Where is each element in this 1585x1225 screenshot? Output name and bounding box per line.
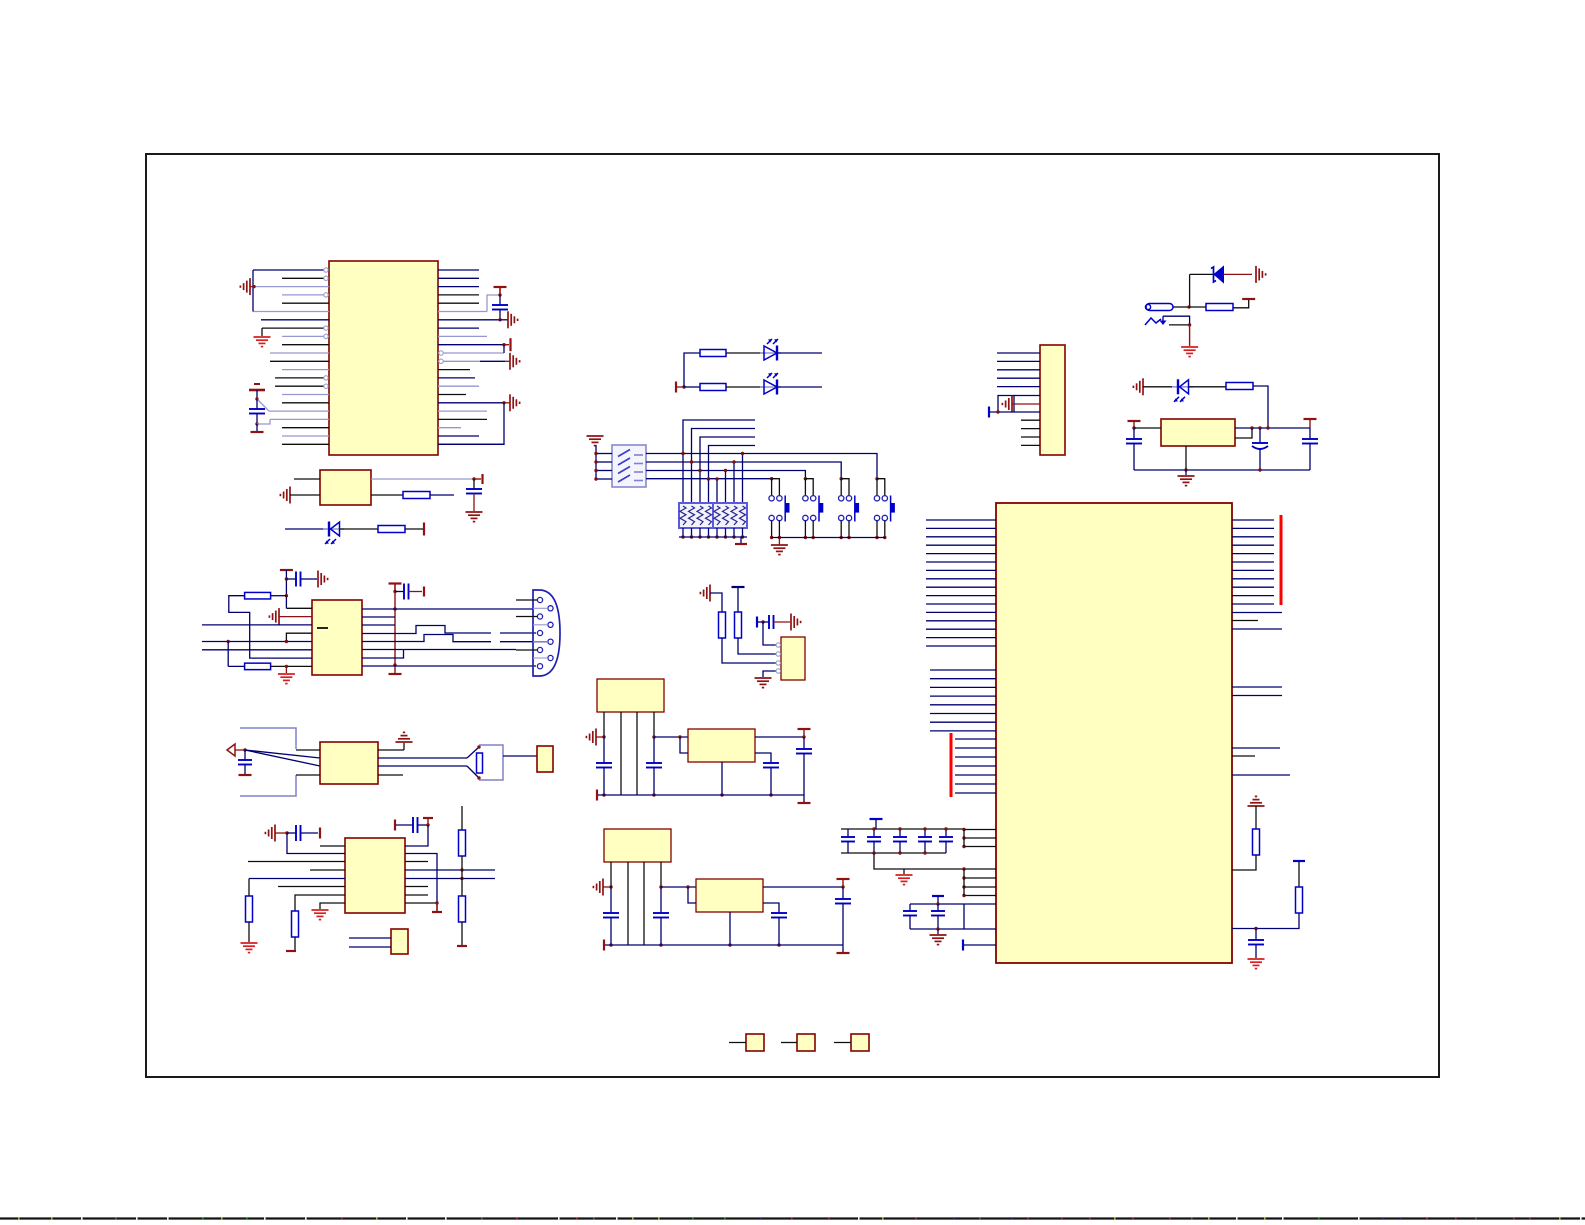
IC U2 xyxy=(312,600,362,675)
wire xyxy=(729,1042,746,1044)
arrow marker xyxy=(227,744,235,756)
wire stub xyxy=(516,599,537,601)
U7 right pin wire xyxy=(1232,569,1274,571)
wire xyxy=(1255,806,1257,829)
wire xyxy=(362,665,536,667)
junction xyxy=(707,477,710,480)
power bar P24 xyxy=(870,818,883,820)
wire stub xyxy=(691,528,693,537)
wire xyxy=(1189,274,1191,307)
junction xyxy=(898,827,901,830)
junction xyxy=(393,590,396,593)
U7 left pin wire xyxy=(955,774,996,776)
wire net SW2 xyxy=(646,462,841,479)
U7 left pin wire xyxy=(926,569,996,571)
push button SW2 xyxy=(804,477,807,480)
capacitor C10 (polar) xyxy=(1259,428,1261,443)
wire xyxy=(294,478,320,480)
wire xyxy=(636,712,638,795)
wire xyxy=(202,649,312,651)
power bar P11 xyxy=(239,774,252,776)
component P3 xyxy=(851,1034,869,1051)
wire xyxy=(757,621,763,623)
wire xyxy=(1253,386,1268,428)
wire xyxy=(1235,427,1310,429)
RN element xyxy=(706,506,712,525)
wire xyxy=(1235,428,1252,438)
wire xyxy=(271,665,312,667)
power bar P28 xyxy=(732,586,745,588)
wire xyxy=(676,386,684,388)
wire xyxy=(603,712,605,737)
U7 left pin wire xyxy=(926,645,996,647)
wire xyxy=(721,762,723,795)
U7 left pin wire xyxy=(964,895,996,897)
junction xyxy=(498,318,501,321)
U7 left pin wire xyxy=(930,713,996,715)
wire stub xyxy=(876,521,878,538)
ground G20 (rotated) xyxy=(1142,378,1144,395)
wire xyxy=(620,712,622,795)
junction xyxy=(804,536,807,539)
U1 left pin wire xyxy=(270,360,329,362)
junction xyxy=(690,460,693,463)
wire xyxy=(228,665,244,667)
wire bus xyxy=(963,869,965,896)
U1 right pin wire xyxy=(438,410,487,412)
junction xyxy=(1132,426,1135,429)
junction xyxy=(659,943,662,946)
resistor R17 xyxy=(735,612,742,638)
junction xyxy=(698,469,701,472)
U1 left pin wire xyxy=(254,286,329,288)
U7 left pin wire xyxy=(926,561,996,563)
U7 left pin wire xyxy=(926,637,996,639)
LED D2 xyxy=(760,352,781,354)
wire xyxy=(1224,273,1253,275)
ground G24 (inverted) xyxy=(1248,805,1265,807)
U1 left pin wire xyxy=(282,394,329,396)
U1 left pin wire xyxy=(253,269,329,271)
U7 left pin wire xyxy=(926,595,996,597)
wire stub xyxy=(812,521,814,538)
junction xyxy=(285,577,288,580)
wire xyxy=(1189,306,1206,308)
junction xyxy=(769,793,772,796)
U1 right pin wire xyxy=(438,269,479,271)
S1 switch lever xyxy=(634,454,643,456)
power bar P7 xyxy=(280,569,293,571)
capacitor (bank) xyxy=(945,829,947,837)
U7 left pin wire xyxy=(930,695,996,697)
wire xyxy=(320,903,345,909)
ground G21 xyxy=(1185,470,1187,475)
wire stub xyxy=(682,528,684,537)
U7 right pin wire xyxy=(1232,695,1282,697)
ground G25 xyxy=(1248,958,1265,960)
U7 right pin wire xyxy=(1232,612,1282,614)
J1 pin xyxy=(537,614,542,619)
ground G9 (rotated) xyxy=(278,608,280,625)
S1 switch lever xyxy=(634,463,643,465)
U7 left pin wire xyxy=(926,628,996,630)
ground (rotated) xyxy=(595,729,597,746)
wire net SW1 xyxy=(646,454,877,479)
wire rail xyxy=(1134,469,1310,471)
wire xyxy=(340,528,378,530)
capacitor xyxy=(610,887,612,913)
wire stub xyxy=(804,521,806,538)
U1 left pin wire xyxy=(275,385,329,387)
junction xyxy=(435,901,438,904)
junction xyxy=(285,665,288,668)
ground G14 xyxy=(312,909,329,911)
capacitor xyxy=(771,912,787,914)
U7 left pin wire xyxy=(926,519,996,521)
wire rail xyxy=(604,944,843,946)
wire xyxy=(295,895,345,911)
wire xyxy=(688,887,696,903)
U7 left pin wire xyxy=(964,903,996,905)
U7 right pin wire xyxy=(1232,595,1274,597)
wire xyxy=(362,624,395,626)
regulator X2R xyxy=(688,729,755,762)
wire xyxy=(362,650,404,659)
ground G27 (rotated) xyxy=(790,614,792,631)
wire diagonal xyxy=(245,750,320,758)
U1 right pin wire xyxy=(438,435,479,437)
junction xyxy=(594,460,597,463)
U1 right pin wire xyxy=(438,352,504,354)
wire xyxy=(362,616,395,618)
wire xyxy=(1169,324,1190,326)
wire xyxy=(874,853,904,869)
wire riser xyxy=(725,471,727,504)
junction xyxy=(802,735,805,738)
junction xyxy=(594,469,597,472)
resistor R10 xyxy=(700,350,726,357)
junction xyxy=(944,827,947,830)
DIP switch S1 xyxy=(612,445,646,487)
wire net to ground xyxy=(438,403,504,445)
junction xyxy=(227,640,230,643)
IC U8 xyxy=(781,637,805,680)
push button SW1 xyxy=(770,477,773,480)
capacitor C14 xyxy=(1255,929,1257,941)
J4 pin wire xyxy=(1012,403,1040,405)
junction xyxy=(243,748,246,751)
ground G7 xyxy=(466,511,483,513)
U7 left pin wire xyxy=(926,527,996,529)
wire xyxy=(249,878,345,880)
junction xyxy=(875,536,878,539)
capacitor xyxy=(763,762,779,764)
junction xyxy=(962,894,965,897)
power bar xyxy=(798,802,811,804)
wire xyxy=(362,649,516,651)
junction xyxy=(840,536,843,539)
junction xyxy=(923,827,926,830)
junction xyxy=(707,535,710,538)
wire xyxy=(235,749,245,751)
U7 right pin wire xyxy=(1232,544,1274,546)
junction xyxy=(609,885,612,888)
capacitor C9 xyxy=(1133,428,1135,439)
wire rail xyxy=(841,852,946,854)
ground G19 (rotated) xyxy=(1011,396,1013,413)
J4 pin wire xyxy=(997,369,1040,371)
wire U1 left net vertical xyxy=(252,270,254,312)
wire xyxy=(680,737,688,753)
fuse F1 xyxy=(1146,304,1173,311)
diode D4 xyxy=(1190,273,1213,275)
power bar xyxy=(837,952,850,954)
wire xyxy=(487,295,500,312)
U1 left pin wire xyxy=(269,410,329,412)
J4 pin wire xyxy=(1021,419,1040,421)
junction xyxy=(602,793,605,796)
junction xyxy=(898,851,901,854)
power bar P10 xyxy=(389,673,402,675)
J1 pin xyxy=(537,647,542,652)
wire stub xyxy=(725,528,727,537)
wire xyxy=(349,946,391,948)
ground G18 xyxy=(1181,346,1198,348)
component P2 xyxy=(797,1034,815,1051)
resistor R15 xyxy=(1296,887,1303,913)
U7 left pin wire xyxy=(964,877,996,879)
U1 left pin wire xyxy=(282,344,329,346)
wire xyxy=(461,922,463,945)
junction xyxy=(841,885,844,888)
wire xyxy=(248,861,345,863)
power bar P27 xyxy=(1293,860,1305,862)
junction xyxy=(962,867,965,870)
power bar P19 xyxy=(740,537,742,543)
U2 pin1 marker xyxy=(317,627,328,629)
resistor R11 xyxy=(700,384,726,391)
U7 left pin wire xyxy=(955,738,996,740)
resistor network RN2 xyxy=(713,503,747,528)
wire xyxy=(763,622,778,645)
wire xyxy=(371,494,403,496)
wire xyxy=(1232,913,1299,929)
wire xyxy=(755,736,804,738)
U1 left pin wire xyxy=(282,294,329,296)
IC U4 xyxy=(345,838,405,913)
junction xyxy=(393,607,396,610)
U7 left pin wire xyxy=(955,747,996,749)
wire rail xyxy=(679,536,747,538)
wire xyxy=(726,386,764,388)
junction xyxy=(761,620,764,623)
wire xyxy=(202,624,312,626)
power bar xyxy=(596,790,598,801)
wire stub xyxy=(742,528,744,537)
wire xyxy=(1232,855,1256,870)
U7 left pin wire xyxy=(964,944,996,946)
U7 right pin wire xyxy=(1232,620,1258,622)
capacitor C1 xyxy=(256,399,258,409)
IC U3 xyxy=(320,742,378,784)
ground (rotated) xyxy=(602,879,604,896)
RN element xyxy=(740,506,746,525)
LED D1 xyxy=(323,528,344,530)
wire net SW4 xyxy=(646,478,772,480)
junction xyxy=(770,536,773,539)
wire xyxy=(430,494,454,496)
power bar P20 xyxy=(1242,298,1255,300)
wire stub xyxy=(405,861,428,863)
J4 pin wire xyxy=(997,386,1040,388)
junction xyxy=(724,535,727,538)
ground G2 xyxy=(261,328,263,336)
U8 pin bubble xyxy=(776,652,780,656)
U7 right pin wire xyxy=(1232,603,1274,605)
U7 left pin wire xyxy=(964,829,996,831)
U1 right pin wire xyxy=(438,311,487,313)
U7 left pin wire xyxy=(926,553,996,555)
wire xyxy=(286,607,312,609)
power bar P13 xyxy=(286,950,296,952)
U1 right pin wire xyxy=(438,369,470,371)
ground G17 (rotated) xyxy=(1255,266,1257,283)
wire stub xyxy=(778,521,780,538)
U1 left pin wire xyxy=(282,435,329,437)
power bar P18 xyxy=(675,382,677,393)
resistor R14 xyxy=(1253,829,1260,855)
wire stub xyxy=(596,470,612,472)
wire stub xyxy=(596,453,612,455)
power bar xyxy=(837,878,850,880)
U7 left pin wire xyxy=(964,928,996,930)
U1 right pin wire xyxy=(438,302,479,304)
wire xyxy=(405,825,428,846)
IC U7 xyxy=(996,503,1232,963)
S1 switch lever xyxy=(634,480,643,482)
U7 left pin wire xyxy=(930,730,996,732)
LED D5 xyxy=(1172,386,1193,388)
wire xyxy=(684,386,700,388)
junction xyxy=(498,293,501,296)
ground G3 (rotated) xyxy=(500,319,508,321)
resistor R12 xyxy=(1206,304,1233,311)
capacitor (bank) xyxy=(924,829,926,837)
power bar P6 xyxy=(423,523,425,536)
wire xyxy=(661,886,696,888)
wire stub xyxy=(405,886,428,888)
wire xyxy=(378,757,467,759)
J1 pin xyxy=(548,655,553,660)
power bar P4 xyxy=(504,344,509,346)
junction xyxy=(609,943,612,946)
wire xyxy=(1134,427,1161,429)
capacitor C11 xyxy=(1309,428,1311,439)
oscillator X1 xyxy=(320,470,371,505)
wire net SW3 xyxy=(646,471,805,479)
U7 right pin wire xyxy=(1232,628,1282,630)
U7 left pin wire xyxy=(964,868,996,870)
junction xyxy=(872,827,875,830)
ground G15 xyxy=(587,435,604,437)
wire zigzag A xyxy=(362,626,491,634)
wire stub xyxy=(320,845,345,847)
wire riser xyxy=(692,429,756,504)
IC U1 xyxy=(329,261,438,455)
U8 pin bubble xyxy=(776,661,780,665)
wire rail xyxy=(910,903,964,905)
wire xyxy=(722,638,781,663)
jumper outline xyxy=(998,396,1014,413)
wire stub xyxy=(708,528,710,537)
component P1 xyxy=(746,1034,764,1051)
RN element xyxy=(680,506,686,525)
wire xyxy=(503,755,537,757)
capacitor (bank) xyxy=(847,829,849,837)
resistor R3 xyxy=(245,592,271,599)
junction xyxy=(996,410,999,413)
wire xyxy=(726,352,764,354)
junction xyxy=(602,735,605,738)
wire diagonal xyxy=(467,747,479,758)
power bar P26 xyxy=(962,940,964,951)
J4 pin wire xyxy=(1021,428,1040,430)
power bar P14 xyxy=(394,820,396,831)
wire xyxy=(362,608,533,610)
component J3 xyxy=(537,746,553,772)
U7 right pin wire xyxy=(1232,747,1280,749)
oscillator X3 box xyxy=(604,829,671,862)
ground G28 xyxy=(755,677,772,679)
U1 left pin wire xyxy=(282,277,329,279)
wire xyxy=(248,879,250,897)
U1 right pin wire xyxy=(438,418,487,420)
resistor R8 xyxy=(461,806,463,830)
capacitor C8 xyxy=(395,824,413,826)
junction xyxy=(923,851,926,854)
wire xyxy=(653,712,655,737)
page edge strip xyxy=(0,1217,1585,1219)
junction xyxy=(460,868,463,871)
junction xyxy=(724,469,727,472)
junction xyxy=(962,885,965,888)
wire bus xyxy=(963,830,965,847)
junction xyxy=(962,828,965,831)
U7 left pin wire xyxy=(964,886,996,888)
U7 left pin wire xyxy=(926,536,996,538)
wire xyxy=(738,638,781,654)
wire xyxy=(729,912,731,945)
wire diagonal xyxy=(245,750,320,766)
U1 left pin wire xyxy=(253,311,329,313)
header J4 xyxy=(1040,345,1065,455)
U1 left pin wire xyxy=(282,369,329,371)
U7 left pin wire xyxy=(930,669,996,671)
resistor R1 xyxy=(403,492,430,499)
junction xyxy=(681,535,684,538)
resistor R16 xyxy=(719,612,726,638)
component Y1 xyxy=(391,929,408,954)
U1 right pin wire xyxy=(438,286,479,288)
junction xyxy=(652,793,655,796)
wire xyxy=(1173,306,1189,308)
resistor R7 xyxy=(292,911,299,937)
wire xyxy=(610,862,612,887)
wire stub xyxy=(771,521,773,538)
J1 pin xyxy=(548,639,553,644)
U1 right pin wire xyxy=(438,377,475,379)
junction xyxy=(686,885,689,888)
